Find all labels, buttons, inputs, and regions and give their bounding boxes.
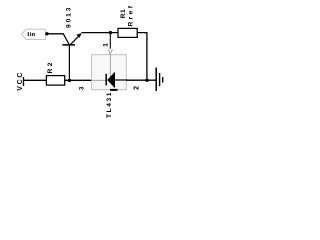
svg-text:R2: R2	[47, 60, 54, 73]
svg-text:3: 3	[79, 86, 86, 90]
svg-text:1: 1	[103, 43, 110, 47]
ground	[156, 68, 163, 92]
svg-text:R1: R1	[120, 9, 127, 18]
emitter lead diagonal with arrow	[70, 34, 81, 45]
ref bar	[110, 89, 118, 91]
op-amp U1 TL431 body	[79, 55, 141, 118]
power VCC terminal	[17, 71, 24, 91]
transistor Q1 9013	[62, 6, 81, 45]
wire U1 pin 2 to ground	[126, 79, 155, 81]
svg-text:9013: 9013	[66, 6, 73, 28]
pin 1 open arrow	[108, 49, 112, 54]
wire node down to U1 pin 1	[109, 33, 111, 49]
wire flag to transistor collector	[47, 33, 64, 35]
resistor R2	[46, 60, 64, 85]
wire base down to node	[68, 45, 70, 80]
svg-text:Rref: Rref	[128, 4, 135, 27]
pin 3 internal lead	[92, 79, 106, 81]
shunt triangle	[107, 72, 115, 89]
junction dot at flag	[45, 32, 48, 35]
anode lead	[115, 79, 128, 81]
wire VCC to R2	[24, 79, 47, 81]
base bar	[62, 44, 75, 46]
junction dot base node	[68, 79, 71, 82]
resistor R1 Rref	[118, 4, 137, 38]
node Iin terminal flag	[22, 29, 46, 39]
svg-text:TL431: TL431	[106, 91, 113, 118]
wire R2 to U1 pin 3	[65, 79, 93, 81]
collector lead diagonal	[63, 34, 69, 45]
wire emitter to R1	[82, 32, 119, 34]
junction dot ground node	[145, 79, 148, 82]
pin 1 internal lead	[109, 55, 111, 77]
cathode bar	[105, 74, 107, 86]
junction dot emitter node	[109, 31, 112, 34]
wire R1 to right corner	[137, 33, 147, 81]
svg-text:2: 2	[134, 86, 141, 90]
